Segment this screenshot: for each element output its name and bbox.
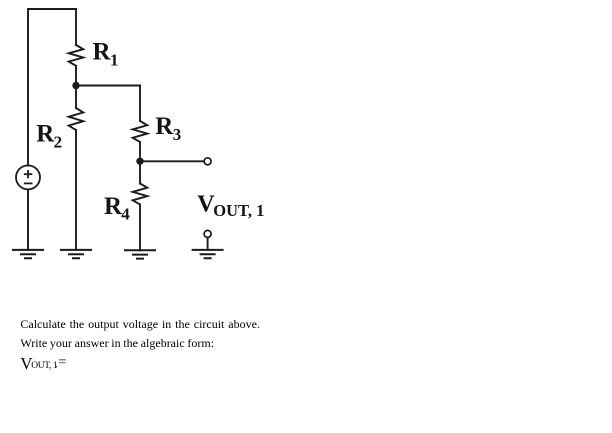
svg-text:3: 3 xyxy=(173,125,182,144)
svg-text:R: R xyxy=(104,193,123,220)
svg-text:R: R xyxy=(93,38,112,65)
svg-text:R: R xyxy=(36,121,55,148)
svg-text:1: 1 xyxy=(110,50,119,69)
svg-text:2: 2 xyxy=(54,133,63,152)
svg-text:OUT, 1: OUT, 1 xyxy=(213,201,264,220)
svg-text:4: 4 xyxy=(121,205,130,224)
svg-text:R: R xyxy=(155,113,174,140)
